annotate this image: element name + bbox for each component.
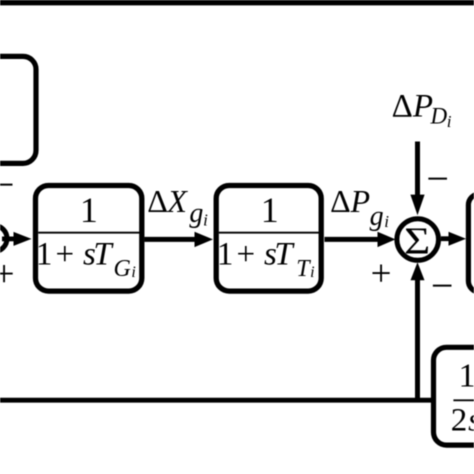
label: Delta P_gi [330,183,389,232]
svg-text:1+sTTi: 1+sTTi [217,237,315,282]
svg-text:−: − [426,156,449,201]
block: power system (cropped at right) [468,194,474,292]
node: sigma summing junction [397,219,439,262]
plus sign at left summing junction [0,254,15,295]
block: droop 1/R_i (cropped at left) [0,56,36,163]
svg-text:ΔXgi: ΔXgi [147,183,208,229]
svg-text:ΔPgi: ΔPgi [330,183,389,232]
plus sign at sigma summing junction [371,253,392,294]
svg-text:+: + [0,254,15,295]
wire: turbine to sigma summing junction with arrowhead [325,232,396,247]
block: inertia 1/(2Hs...) (cropped at bottom right) [434,347,474,445]
wire: top horizontal bus [0,0,474,5]
node: left summing junction (cropped) [0,226,7,252]
svg-text:−: − [431,263,454,308]
svg-text:−: − [0,162,14,207]
minus sign on feedback input [431,263,454,308]
minus sign at left summing junction [0,162,14,207]
label: Delta X_gi [147,183,208,229]
wire: feedback arrow up into sigma from below [411,262,425,399]
svg-text:1: 1 [459,357,474,394]
wire: load disturbance arrow down into sigma [410,142,424,216]
minus sign on load disturbance input [426,156,449,201]
label: Delta P_Di [392,88,452,131]
svg-text:Σ: Σ [404,219,430,261]
svg-text:ΔPDi: ΔPDi [392,88,452,131]
block: governor 1/(1+sT_Gi) [36,186,142,292]
wire: governor to turbine with arrowhead [145,232,214,247]
wire: summing junction to governor block with arrowhead [2,232,32,246]
svg-text:2s: 2s [451,402,474,438]
svg-text:1: 1 [261,190,279,230]
wire: sigma to power system block with arrowhead [441,232,466,246]
wire: bottom feedback bus [0,398,433,403]
svg-text:1+sTGi: 1+sTGi [36,237,136,282]
svg-text:+: + [371,253,392,294]
block: turbine 1/(1+sT_Ti) [216,186,321,292]
svg-text:1: 1 [80,190,98,230]
